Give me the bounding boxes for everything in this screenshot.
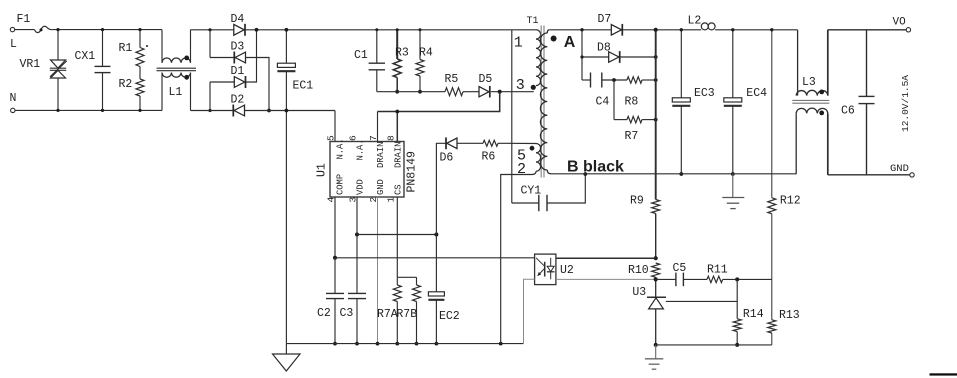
fuse F1 [35,26,52,32]
wire drain pin7 stub [377,112,379,142]
svg-text:U3: U3 [632,286,646,299]
diode D7 [611,25,621,36]
svg-text:GND: GND [376,179,386,195]
wire D8 cathode to cathode bus [620,56,656,58]
transformer T1 auxiliary winding pins 5-2 [536,144,541,172]
wire opto LED anode from feedback node [556,257,656,259]
wire C4 to R8 [602,79,627,81]
svg-text:VR1: VR1 [20,58,41,71]
svg-text:L3: L3 [802,76,816,89]
svg-text:U1: U1 [316,163,329,177]
optocoupler U2 [535,254,556,285]
ground symbol feedback [655,345,657,359]
wire primary ground rail [286,343,523,345]
capacitor EC4 [732,30,734,98]
wire R5 to D5 [463,91,479,93]
wire U3 anode down [655,309,657,345]
resistor R10 [652,263,660,277]
capacitor C5 [656,278,676,280]
svg-text:N.A.: N.A. [356,139,366,160]
wire top rail L1 to bridge [191,29,234,31]
capacitor EC1 [285,30,287,63]
wire GND pin2 down to ground rail [377,197,379,344]
resistor R3 [396,30,398,59]
capacitor C4 [582,79,591,81]
transformer T1 primary winding pins 1-3 [512,29,536,31]
svg-text:R7B: R7B [396,308,417,321]
svg-text:L: L [10,38,17,51]
svg-text:3: 3 [516,77,525,94]
resistor R14 [736,301,738,318]
svg-text:U2: U2 [560,264,574,277]
svg-text:CY1: CY1 [521,185,542,198]
svg-text:1: 1 [514,35,523,52]
wire CY1 to secondary return [547,174,585,203]
svg-text:8: 8 [386,135,397,141]
wire pin5 stub [334,111,336,142]
common-mode choke L1 [161,30,163,63]
svg-text:DRAIN: DRAIN [376,142,386,168]
wire drain node down to drain pins [378,92,500,112]
wire CS pin1 down [396,197,398,277]
terminal VO circle [906,28,910,32]
wire D4 cathode to HV rail [245,29,512,31]
svg-text:VO: VO [893,17,907,29]
op-amp U1 PN8149 controller IC [330,142,404,198]
resistor R13 [768,320,776,333]
svg-text:R2: R2 [119,78,133,91]
svg-text:7: 7 [368,135,379,141]
wire R8 to cathode bus [642,79,656,81]
svg-text:CX1: CX1 [75,50,96,63]
svg-text:D7: D7 [598,13,612,26]
svg-text:L2: L2 [688,15,702,28]
wire N terminal to L1 [15,109,162,111]
wire node A drop to D8 and C4 [581,30,583,80]
svg-text:D3: D3 [231,41,245,54]
svg-text:D2: D2 [231,94,245,107]
wire HV rail to CY1 drop [511,30,513,203]
wire VDD to D6 node [357,234,436,236]
wire D7 cathode rail to L2 [623,29,701,31]
svg-text:C1: C1 [354,49,368,62]
svg-text:R12: R12 [780,195,801,208]
diode D2 [232,105,234,117]
resistor R7A [396,277,398,285]
svg-text:2: 2 [517,161,526,178]
svg-text:EC2: EC2 [439,310,460,323]
wire R11 to divider node [723,278,772,280]
svg-text:D1: D1 [231,65,245,78]
wire minus rail D2 to IC pin5 [245,110,336,112]
svg-text:GND: GND [890,163,909,175]
capacitor CY1 [512,202,539,204]
svg-text:T1: T1 [527,16,539,27]
svg-text:R1: R1 [119,42,133,55]
diode D5 [479,87,489,97]
svg-text:N.A.: N.A. [336,138,346,159]
svg-text:D6: D6 [440,152,454,165]
wire COMP to optocoupler [335,257,535,259]
svg-text:R9: R9 [630,195,644,208]
wire secondary node A rail [549,29,611,31]
wire drain pin8 stub [396,112,398,142]
diode D6 [436,143,446,234]
resistor R1 [139,30,141,48]
svg-text:1: 1 [386,197,397,203]
resistor R9 [652,200,660,214]
svg-text:R5: R5 [445,73,459,86]
wire D6 anode to R6 [457,142,483,144]
wire top rail from fuse to L1 [51,29,162,31]
svg-text:R7: R7 [625,130,639,143]
common-mode choke L3 output [797,30,799,96]
svg-text:COMP: COMP [336,174,346,195]
svg-text:R13: R13 [779,309,800,322]
shunt regulator U3 [647,296,666,298]
svg-text:R6: R6 [482,151,496,164]
wire AC1 drop to D3 [209,30,211,58]
page mark bottom right [930,373,957,375]
resistor R8 [627,77,642,83]
svg-text:EC3: EC3 [694,87,715,100]
wire L terminal to fuse [15,29,35,31]
svg-text:C5: C5 [673,262,687,275]
svg-text:C6: C6 [841,105,855,118]
wire cathode bus vertical [655,30,657,200]
svg-text:R14: R14 [743,308,764,321]
svg-text:N: N [10,92,17,105]
wire C5 to R11 [683,278,707,280]
ground symbol secondary rail [732,174,734,198]
wire R12 to divider node [771,214,773,320]
svg-text:12.0V/1.5A: 12.0V/1.5A [900,75,911,132]
svg-text:A: A [564,34,576,51]
capacitor C6 [866,30,868,97]
wire L2 to output node [715,29,798,31]
wire D1 cathode to HV rail [246,30,257,82]
svg-text:R7A: R7A [377,308,398,321]
resistor R2 [136,79,144,96]
svg-text:R3: R3 [395,47,409,60]
svg-text:L1: L1 [169,86,183,99]
wire snubber drop to R7 [613,80,615,120]
aux winding phase dot [530,146,535,151]
wire VDD pin3 down [356,197,358,235]
svg-text:PN8149: PN8149 [406,151,419,193]
diode D8 [582,56,609,58]
diode D3 [210,57,234,59]
resistor R5 [445,88,463,96]
svg-text:R4: R4 [419,47,433,60]
inductor L2 [701,23,708,30]
svg-text:EC1: EC1 [293,80,314,93]
primary phase dot [531,85,536,90]
resistor R6 [483,140,498,146]
capacitor C3 [356,235,358,294]
wire clamp node to R5 [377,91,445,93]
svg-text:EC4: EC4 [746,87,767,100]
svg-text:CS: CS [394,184,404,195]
resistor R11 [707,276,723,282]
svg-text:R11: R11 [707,264,728,277]
terminal N circle [11,108,15,112]
capacitor EC2 [435,235,437,292]
wire opto LED cathode row [556,278,656,280]
resistor R12 [771,30,773,198]
wire opto transistor emitter to primary ground [524,279,535,343]
terminal L circle [10,27,14,31]
wire D5 cathode to transformer pin 3 [491,91,534,93]
wire U3 ref [666,279,737,301]
terminal GND circle [910,173,914,177]
wire R6 to transformer pin 5 [498,142,536,144]
svg-text:C2: C2 [317,307,331,320]
svg-text:D5: D5 [479,73,493,86]
wire bottom rail L1 to D2 [191,110,234,112]
svg-text:VDD: VDD [356,179,366,195]
wire secondary ground rail B [551,173,797,175]
diode D1 [210,81,234,83]
wire L3 to VO rail [828,29,906,31]
svg-text:C4: C4 [596,96,610,109]
svg-text:F1: F1 [17,13,31,26]
wire R9 to opto node [655,214,657,259]
svg-text:B black: B black [567,159,624,176]
capacitor CX1 [102,30,104,67]
svg-text:D4: D4 [231,13,245,26]
transformer T1 core [540,26,542,178]
capacitor EC3 [680,30,682,98]
resistor R4 [419,30,421,60]
capacitor C1 [376,30,378,63]
svg-text:R10: R10 [628,264,649,277]
secondary phase dot [551,36,557,42]
ground chassis symbol [285,344,287,354]
wire secondary feedback ground row [656,344,772,346]
svg-text:DRAIN: DRAIN [394,142,404,168]
diode D4 [234,24,244,35]
resistor R7B [416,277,418,285]
svg-text:C3: C3 [340,307,354,320]
wire pin2 to primary ground [501,175,532,344]
svg-text:D8: D8 [597,42,611,55]
svg-text:R8: R8 [625,96,639,109]
transformer T1 secondary winding A-B [547,30,549,33]
wire L3 to GND terminal [828,174,910,176]
wire COMP pin4 down [334,197,336,258]
varistor VR1 [57,30,59,60]
wire AC2 drop to D1 [209,82,211,111]
wire D3 anode to minus rail [246,58,270,111]
capacitor C2 [334,258,336,294]
resistor R7 [614,119,627,121]
wire CS node to R7B [397,276,416,278]
